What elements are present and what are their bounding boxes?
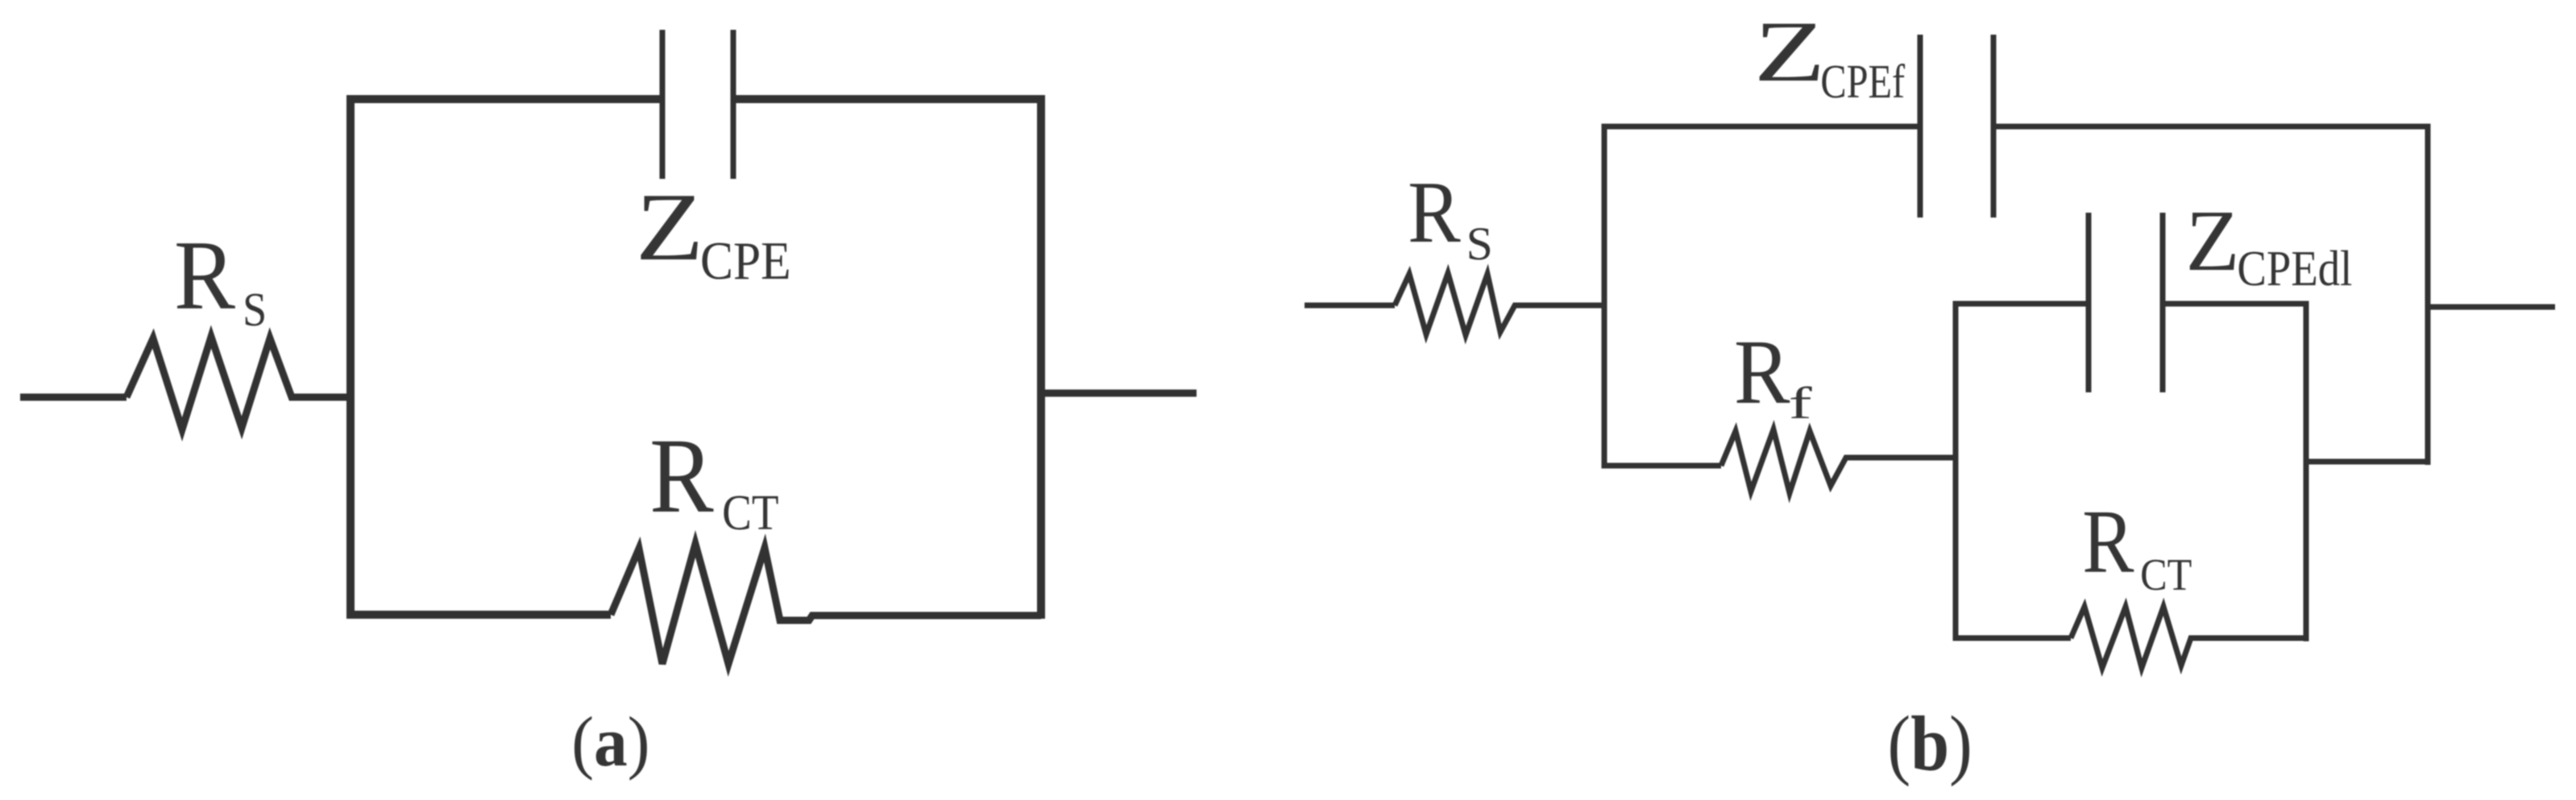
svg-text:R: R (649, 417, 714, 535)
resistor RS (b) (1395, 273, 1604, 335)
svg-text:CT: CT (2140, 549, 2192, 599)
svg-text:Z: Z (1754, 3, 1826, 100)
capacitor ZCPEf (b) left plate (1918, 35, 1923, 218)
resistor RCT (b) (2071, 607, 2306, 668)
svg-text:CPEdl: CPEdl (2237, 241, 2352, 296)
wire: box (a) left vertical + top-left + bottom-left (351, 99, 662, 615)
svg-text:S: S (243, 284, 267, 337)
svg-text:Z: Z (636, 173, 704, 280)
svg-text:(a): (a) (571, 702, 649, 781)
svg-text:R: R (1734, 320, 1790, 423)
svg-text:R: R (1408, 164, 1461, 261)
resistor RS (a) (127, 337, 348, 429)
wire: box (a) top-right + right vertical (733, 99, 1041, 619)
wire: circuit (b) input lead (1305, 303, 1395, 309)
svg-text:CPEf: CPEf (1820, 55, 1906, 108)
svg-text:S: S (1466, 218, 1493, 270)
resistor RCT (a) (611, 544, 1041, 664)
wire: box (b) inner top-right + right vertical (2163, 304, 2306, 641)
svg-text:R: R (2082, 491, 2134, 591)
wire: circuit (a) input lead (20, 394, 127, 401)
svg-text:Z: Z (2186, 193, 2240, 289)
svg-text:(b): (b) (1888, 700, 1972, 787)
capacitor ZCPE (a) left plate (660, 30, 666, 179)
wire: box (b) outer left vertical + top-left + bottom-left (1604, 126, 1920, 466)
svg-text:f: f (1789, 378, 1813, 428)
wire: box (b) inner left vertical + top-left + bottom-left (1956, 304, 2089, 638)
svg-text:CPE: CPE (700, 231, 791, 291)
svg-text:R: R (174, 220, 235, 330)
wire: circuit (a) output lead (1041, 390, 1197, 397)
wire: connector inner box to outer right (b) (2306, 459, 2428, 465)
capacitor ZCPEf (b) right plate (1991, 35, 1997, 218)
wire: box (b) outer top-right + right vertical (1993, 126, 2428, 465)
capacitor ZCPE (a) right plate (731, 30, 736, 179)
capacitor ZCPEdl (b) left plate (2086, 213, 2092, 392)
svg-text:CT: CT (722, 485, 778, 541)
capacitor ZCPEdl (b) right plate (2160, 213, 2166, 392)
resistor Rf (b) (1721, 429, 1956, 493)
wire: circuit (b) output lead (2428, 305, 2555, 310)
